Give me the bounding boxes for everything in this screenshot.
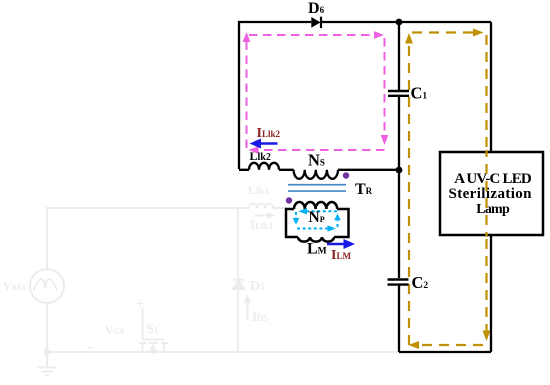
- arrowhead pink left: [249, 146, 259, 154]
- arrowhead yellow up: [405, 33, 413, 44]
- transistor S1 body arrow: [152, 348, 154, 354]
- winding Ns: [294, 170, 338, 179]
- wire: cyan top: [305, 210, 337, 212]
- pink dashed loop: secondary resonant current path: [247, 35, 385, 150]
- black secondary circuit: [239, 22, 491, 352]
- source Vrec: [30, 269, 64, 303]
- svg-text:A UV-C LED: A UV-C LED: [454, 171, 532, 187]
- transistor S1 leads: [143, 343, 165, 352]
- diode D5: [233, 280, 244, 289]
- arrowhead yellow right: [473, 29, 484, 37]
- capacitor C1: [388, 91, 409, 96]
- arrowhead cyan down: [293, 218, 300, 225]
- arrowhead cyan left: [299, 208, 308, 215]
- winding Lm bottom: [298, 237, 334, 242]
- component labels: [250, 0, 429, 292]
- svg-text:Lamp: Lamp: [476, 202, 510, 217]
- arrow Id5: [247, 299, 249, 321]
- wire: yellow bottom side left: [420, 344, 483, 346]
- node B: mid junction: [396, 167, 403, 174]
- arrow Illk1: [255, 215, 270, 217]
- transistor S1 gate lead: [143, 308, 165, 340]
- wire: center rail C1 branch: [398, 22, 400, 170]
- transistor S1 channel: [139, 342, 168, 344]
- wire: top rail with D6: [239, 22, 491, 169]
- wire: pink bottom side left: [259, 149, 385, 151]
- arrow Illk2: [250, 139, 278, 149]
- node A: top junction: [396, 19, 403, 26]
- inductor Llk1: [249, 204, 273, 209]
- ghost labels: [3, 183, 274, 356]
- cyan dashed loop: magnetizing current: [296, 211, 338, 228]
- arrow Ilm: [327, 239, 355, 249]
- wire: ghost top rail Vrec to Np: [47, 208, 287, 269]
- wire: yellow right side down: [485, 35, 487, 332]
- wire: pink right side down: [384, 38, 386, 136]
- dark-yellow dashed loop: output current path: [409, 33, 487, 346]
- wire: yellow dash over box: [485, 150, 487, 237]
- wire: pink left side up: [246, 41, 248, 148]
- arrowhead pink right: [374, 31, 384, 39]
- wire: Np box outline: [286, 209, 349, 237]
- wire: yellow left side up: [408, 42, 410, 345]
- svg-text:−: −: [87, 341, 95, 356]
- winding Np top: [294, 202, 337, 209]
- svg-text:Llk1: Llk1: [248, 183, 269, 197]
- polarity dot primary: [286, 197, 292, 203]
- diode D6: [311, 17, 321, 28]
- wire: secondary winding rail: [239, 169, 399, 171]
- svg-text:ILM: ILM: [331, 248, 351, 263]
- node: ghost junction: [44, 349, 50, 355]
- wire: yellow top side right: [412, 31, 474, 33]
- arrowhead cyan up: [334, 214, 341, 221]
- load box: A UV-C LED Sterilization Lamp: [440, 152, 543, 235]
- svg-text:+: +: [136, 297, 144, 312]
- arrowhead yellow left: [409, 341, 420, 349]
- arrowhead cyan right: [328, 225, 336, 232]
- ground: [38, 352, 57, 376]
- wire: cyan right: [337, 221, 339, 228]
- arrowhead pink up: [243, 32, 251, 42]
- svg-text:Sterilization: Sterilization: [449, 186, 533, 202]
- svg-text:Llk2: Llk2: [250, 149, 271, 163]
- wire: ghost D5 branch: [237, 208, 239, 352]
- capacitor C2: [388, 280, 409, 285]
- wire: pink top side right: [249, 34, 373, 36]
- svg-text:ILlk2: ILlk2: [257, 126, 281, 141]
- wire: right rail: [490, 22, 492, 352]
- wire: center rail C2 branch: [398, 170, 400, 352]
- svg-text:S1: S1: [146, 322, 159, 337]
- polarity dot secondary: [343, 172, 349, 178]
- wire: ghost bottom rail: [47, 303, 399, 352]
- ghost input-stage subcircuit (faded): [30, 204, 399, 376]
- winding Np / inductor Lm box: [286, 202, 349, 242]
- transformer TR core: [288, 185, 346, 191]
- arrowhead yellow down: [483, 331, 491, 342]
- arrowhead pink down: [381, 135, 389, 145]
- wire: cyan left: [295, 212, 297, 219]
- wire: cyan bottom: [297, 228, 329, 230]
- svg-text:D5: D5: [250, 279, 265, 294]
- wire: bottom rail: [399, 351, 491, 353]
- inductor Llk2: [249, 163, 279, 170]
